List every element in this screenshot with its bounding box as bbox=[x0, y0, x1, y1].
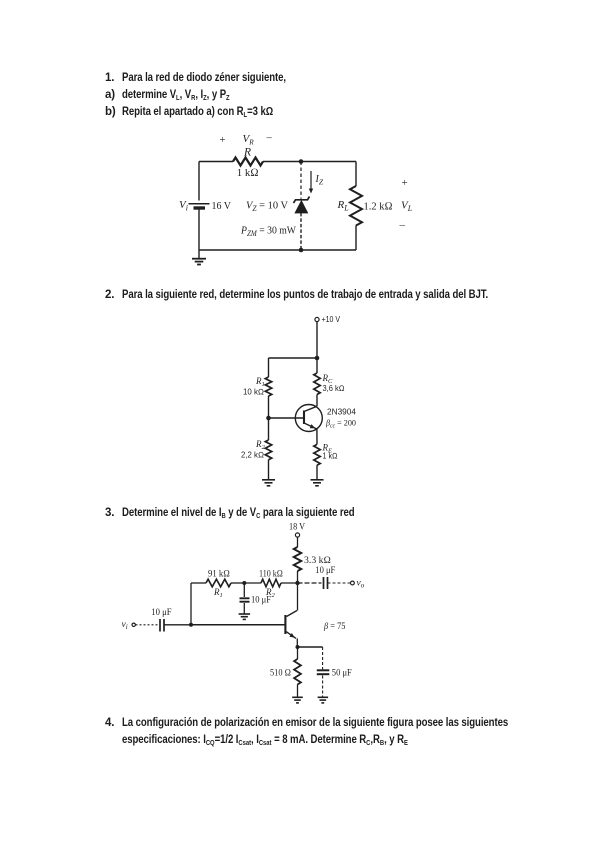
svg-text:3.3 kΩ: 3.3 kΩ bbox=[304, 556, 331, 566]
svg-text:R1: R1 bbox=[213, 587, 223, 599]
wire: supply vertical bbox=[316, 322, 318, 358]
problem 3 text bbox=[105, 507, 114, 519]
wire: left vertical below battery bbox=[198, 209, 200, 251]
svg-text:16 V: 16 V bbox=[212, 200, 232, 212]
wire: RE to ground bbox=[316, 465, 318, 479]
resistor RE 1 kOhm bbox=[314, 444, 320, 465]
node: collector junction bbox=[295, 581, 299, 585]
wire: emitter lead bbox=[316, 429, 318, 444]
problem 2 text bbox=[105, 289, 114, 301]
current arrow I_Z bbox=[310, 171, 312, 189]
wire: R2 to ground bbox=[268, 460, 270, 480]
node: bottom junction of zener branch bbox=[299, 248, 304, 253]
svg-text:β = 75: β = 75 bbox=[323, 622, 346, 632]
wire: cap to vo terminal bbox=[328, 582, 351, 584]
wire: R2 to collector node bbox=[281, 582, 298, 584]
svg-text:18 V: 18 V bbox=[289, 522, 305, 532]
wire: supply to RC bbox=[297, 537, 299, 547]
zener diode bbox=[295, 201, 307, 213]
capacitor 10uF (input coupling) bbox=[159, 619, 161, 632]
wire: top rail left segment bbox=[199, 161, 233, 163]
svg-text:510 Ω: 510 Ω bbox=[270, 669, 291, 679]
node: supply junction bbox=[315, 356, 320, 361]
wire: R1 branch upper bbox=[268, 358, 270, 377]
svg-text:+: + bbox=[220, 135, 226, 146]
wire: to R1 bbox=[191, 582, 206, 584]
svg-text:Vi: Vi bbox=[179, 199, 188, 213]
capacitor 10uF (output coupling) bbox=[323, 577, 325, 589]
wire: zener branch lower bbox=[300, 213, 302, 250]
svg-text:RC: RC bbox=[322, 373, 334, 385]
wire: bottom rail bbox=[199, 249, 356, 251]
wire: top rail right segment bbox=[263, 161, 356, 163]
wire: right vertical lower bbox=[355, 226, 357, 251]
capacitor 10uF (midpoint to ground) bbox=[243, 583, 245, 597]
svg-text:1 kΩ: 1 kΩ bbox=[323, 452, 338, 461]
wire: base lead bbox=[269, 417, 304, 419]
svg-text:10 μF: 10 μF bbox=[315, 566, 335, 576]
svg-text:–: – bbox=[266, 133, 273, 144]
svg-text:R1: R1 bbox=[255, 376, 265, 388]
ground (under bypass cap) bbox=[318, 696, 329, 698]
resistor RC 3.6 kOhm bbox=[314, 373, 320, 395]
wire: supply to RC bbox=[316, 358, 318, 373]
svg-text:R: R bbox=[243, 146, 251, 158]
wire: base line to transistor bbox=[191, 624, 285, 626]
resistor R_L 1.2 kOhm bbox=[350, 186, 362, 226]
svg-text:1.2 kΩ: 1.2 kΩ bbox=[364, 201, 393, 213]
problem 4 text bbox=[105, 717, 114, 729]
wire: zener branch upper bbox=[300, 162, 302, 199]
ground (right, circuit 2) bbox=[311, 479, 324, 481]
wire: collector lead bbox=[316, 395, 318, 407]
svg-text:PZM = 30 mW: PZM = 30 mW bbox=[240, 225, 296, 239]
svg-text:50 μF: 50 μF bbox=[332, 669, 352, 679]
wire: R1 to midpoint bbox=[231, 582, 244, 584]
node: feedback midpoint bbox=[242, 581, 246, 585]
capacitor 50uF (emitter bypass) bbox=[322, 647, 324, 669]
wire: collector down to transistor bbox=[297, 583, 299, 611]
wire: emitter down bbox=[296, 638, 298, 647]
wire: right vertical upper bbox=[355, 162, 357, 187]
svg-text:VZ = 10 V: VZ = 10 V bbox=[246, 200, 288, 214]
svg-text:2,2 kΩ: 2,2 kΩ bbox=[241, 451, 264, 460]
svg-text:+10 V: +10 V bbox=[322, 315, 341, 324]
svg-text:3,6 kΩ: 3,6 kΩ bbox=[323, 384, 345, 393]
wire: input to cap bbox=[136, 624, 159, 626]
node: base junction bbox=[266, 416, 271, 421]
ground (feedback midpoint) bbox=[239, 613, 251, 615]
svg-text:10 μF: 10 μF bbox=[251, 596, 271, 606]
wire: midpoint to R2 bbox=[244, 582, 261, 584]
ground (circuit 1) bbox=[198, 250, 200, 259]
input terminal bbox=[132, 623, 135, 626]
node: emitter junction bbox=[296, 645, 300, 649]
svg-text:RL: RL bbox=[337, 199, 350, 213]
wire: feedback branch vertical bbox=[190, 583, 192, 625]
transistor Q (beta=75) bbox=[284, 615, 286, 634]
wire: collector node to output cap bbox=[298, 582, 322, 584]
svg-text:vo: vo bbox=[357, 579, 365, 590]
svg-text:+: + bbox=[402, 177, 408, 189]
svg-text:R2: R2 bbox=[255, 439, 266, 451]
battery Vi 16V bbox=[189, 203, 210, 205]
terminal v_o bbox=[351, 581, 355, 585]
terminal +10 V bbox=[315, 317, 319, 321]
svg-text:1 kΩ: 1 kΩ bbox=[237, 167, 259, 179]
wire: R1 to base node bbox=[268, 396, 270, 418]
wire: cap to base node bbox=[164, 624, 191, 626]
ground (under RE, circuit 3) bbox=[292, 696, 303, 698]
svg-text:2N3904: 2N3904 bbox=[327, 408, 357, 417]
svg-text:110 kΩ: 110 kΩ bbox=[259, 570, 283, 580]
svg-text:βcc = 200: βcc = 200 bbox=[325, 418, 356, 430]
resistor R 1 kOhm (series) bbox=[233, 158, 263, 166]
svg-text:VR: VR bbox=[243, 133, 255, 147]
resistor R1 91 kOhm bbox=[206, 579, 231, 587]
node: top junction of zener branch bbox=[299, 159, 304, 164]
wire: emitter node to bypass branch bbox=[298, 646, 323, 648]
resistor R2 110 kOhm bbox=[261, 579, 281, 587]
svg-text:IZ: IZ bbox=[315, 174, 324, 187]
node: base-line junction bbox=[189, 623, 193, 627]
resistor R1 10 kOhm bbox=[265, 377, 271, 396]
svg-text:10 kΩ: 10 kΩ bbox=[243, 388, 264, 397]
resistor R2 2.2 kOhm bbox=[265, 440, 271, 460]
ground (left, circuit 2) bbox=[262, 479, 275, 481]
resistor RE 510 Ohm bbox=[297, 647, 299, 659]
transistor Q1 2N3904 bbox=[295, 405, 322, 432]
wire: top horizontal to R1 branch bbox=[269, 357, 318, 359]
wire: R2 branch bbox=[268, 418, 270, 440]
problem 1 text bbox=[105, 72, 114, 84]
resistor RC 3.3 kOhm bbox=[294, 547, 302, 571]
svg-text:vi: vi bbox=[122, 620, 128, 631]
svg-text:10 μF: 10 μF bbox=[151, 608, 171, 618]
svg-text:91 kΩ: 91 kΩ bbox=[208, 570, 230, 580]
terminal 18 V bbox=[295, 533, 299, 537]
wire: left vertical to battery bbox=[198, 162, 200, 201]
svg-text:VL: VL bbox=[401, 200, 413, 214]
wire: RC to collector node bbox=[297, 571, 299, 583]
svg-text:–: – bbox=[399, 219, 406, 231]
